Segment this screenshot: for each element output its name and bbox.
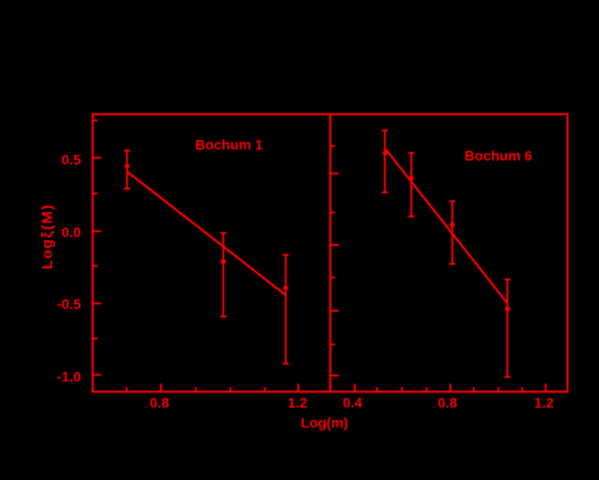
svg-text:Bochum 6: Bochum 6 xyxy=(465,148,533,164)
panel divider (right panel left axis) xyxy=(329,114,331,392)
right panel y-axis minor ticks on divider xyxy=(330,146,335,345)
left panel x-axis minor ticks xyxy=(127,387,265,391)
svg-text:-0.5: -0.5 xyxy=(57,296,81,312)
svg-text:1.2: 1.2 xyxy=(534,395,554,411)
svg-text:0.4: 0.4 xyxy=(343,395,363,411)
left panel point 2 marker xyxy=(221,260,226,264)
right panel point 1 marker xyxy=(383,151,388,155)
left panel point 1 error bar xyxy=(124,151,130,189)
svg-text:Log(m): Log(m) xyxy=(301,415,348,431)
left panel y-axis minor ticks xyxy=(93,120,98,338)
right panel y-axis major ticks on divider xyxy=(330,174,339,376)
svg-text:0.8: 0.8 xyxy=(438,395,458,411)
left panel point 3 error bar xyxy=(283,255,289,364)
right panel x-axis minor ticks xyxy=(377,387,522,391)
left panel point 2 error bar xyxy=(220,233,226,317)
left panel y-axis major ticks xyxy=(93,158,102,375)
right panel x-axis major ticks xyxy=(355,384,546,392)
left panel x-axis major ticks xyxy=(161,384,298,392)
left panel point 3 marker xyxy=(283,286,288,290)
left panel fit line xyxy=(127,172,286,296)
right panel point 2 error bar xyxy=(408,153,414,216)
right panel point 4 error bar xyxy=(504,280,510,378)
left panel point 1 marker xyxy=(125,165,130,169)
right panel fit line xyxy=(386,150,508,304)
svg-text:0.5: 0.5 xyxy=(62,151,82,167)
plot frame outer box xyxy=(93,114,568,392)
svg-text:Logξ(M): Logξ(M) xyxy=(39,204,56,270)
right panel point 2 marker xyxy=(409,176,414,180)
right panel point 1 error bar xyxy=(382,130,388,192)
svg-text:0.0: 0.0 xyxy=(62,224,82,240)
right panel point 3 error bar xyxy=(449,201,455,264)
svg-text:-1.0: -1.0 xyxy=(57,368,81,384)
svg-text:1.2: 1.2 xyxy=(288,395,308,411)
right panel point 3 marker xyxy=(450,223,455,227)
svg-text:Bochum 1: Bochum 1 xyxy=(195,137,263,153)
svg-text:0.8: 0.8 xyxy=(150,395,170,411)
right panel point 4 marker xyxy=(505,307,510,311)
